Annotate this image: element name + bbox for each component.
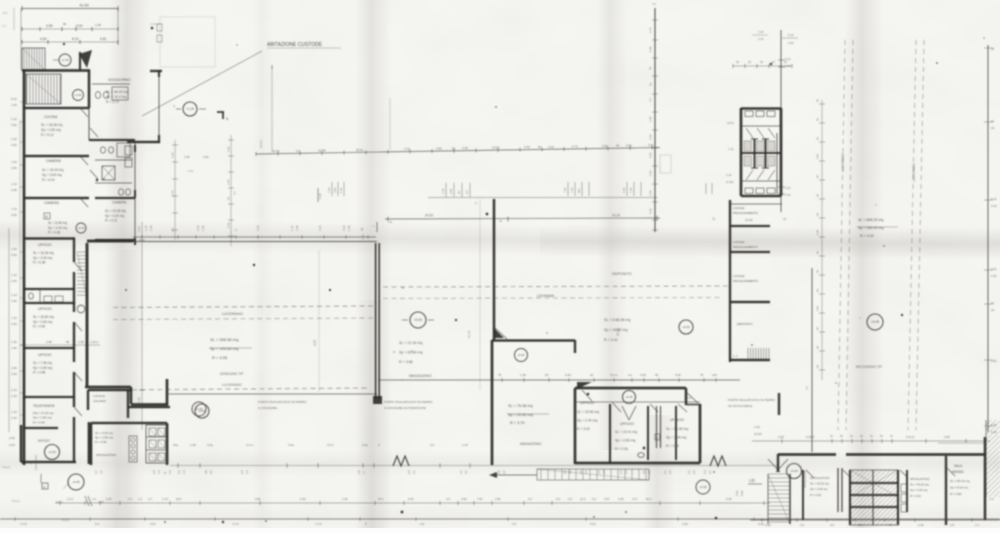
svg-text:4.0a: 4.0a (362, 443, 368, 447)
svg-text:SL = 12.34 mq: SL = 12.34 mq (399, 341, 422, 345)
svg-text:20.63: 20.63 (425, 214, 433, 218)
svg-text:3.60: 3.60 (333, 187, 337, 193)
svg-text:4.0: 4.0 (446, 497, 450, 501)
svg-text:4.0: 4.0 (296, 149, 301, 153)
svg-text:SPOGLIATOIO: SPOGLIATOIO (810, 476, 830, 480)
level circle +1.34 custode (183, 102, 197, 116)
svg-text:R = 4.22: R = 4.22 (105, 219, 117, 223)
svg-text:2.91.5: 2.91.5 (806, 435, 815, 439)
svg-text:9|: 9| (163, 472, 167, 474)
svg-text:4.75: 4.75 (404, 147, 410, 151)
door swings offices (74, 262, 82, 271)
svg-text:3.40: 3.40 (565, 373, 571, 377)
svg-text:1.50: 1.50 (11, 160, 17, 164)
svg-text:4.35: 4.35 (462, 146, 468, 150)
svg-text:2.1: 2.1 (708, 470, 712, 474)
tick cluster row y190 b (445, 183, 447, 197)
svg-text:4.8: 4.8 (497, 470, 501, 474)
svg-text:CAMERA: CAMERA (44, 201, 60, 205)
svg-text:+0.05: +0.05 (72, 480, 80, 484)
svg-text:1.20: 1.20 (327, 187, 331, 193)
room CAMERA 1 (24, 155, 89, 157)
shower box (102, 166, 115, 180)
svg-text:25 h: 25 h (378, 497, 384, 501)
svg-text:LOCALE: LOCALE (733, 240, 744, 244)
svg-text:2.4: 2.4 (177, 470, 181, 474)
stamp circle ricovero (867, 314, 883, 330)
svg-text:Sp = 63.60 mq: Sp = 63.60 mq (399, 351, 422, 355)
svg-text:7.30: 7.30 (570, 187, 574, 193)
entrance arrow (79, 50, 92, 68)
svg-text:2.10: 2.10 (11, 293, 17, 297)
svg-text:1.1a: 1.1a (728, 147, 734, 151)
svg-text:A CHIUSURE AUTOMATICHE: A CHIUSURE AUTOMATICHE (384, 406, 426, 410)
window zigzag left (393, 456, 409, 466)
svg-text:4.97: 4.97 (137, 226, 141, 232)
svg-text:4.50: 4.50 (11, 372, 17, 376)
svg-text:2.4: 2.4 (692, 470, 696, 474)
svg-text:2.4: 2.4 (703, 470, 707, 474)
dimension line 41.50 top (22, 8, 118, 10)
svg-text:14.63: 14.63 (259, 140, 263, 148)
svg-text:5.00: 5.00 (991, 274, 997, 278)
svg-text:1.50: 1.50 (649, 116, 653, 122)
level circle hall (195, 404, 209, 418)
svg-text:3.4: 3.4 (407, 470, 411, 474)
svg-text:1.00: 1.00 (149, 225, 153, 231)
svg-text:1.6: 1.6 (92, 497, 96, 501)
svg-text:2.40: 2.40 (785, 193, 791, 197)
svg-text:R = 5.13: R = 5.13 (41, 133, 54, 137)
svg-text:AD AVVOLGIBILE: AD AVVOLGIBILE (728, 404, 752, 408)
svg-text:Sp = 3.40 mq: Sp = 3.40 mq (33, 256, 52, 260)
svg-text:1.80: 1.80 (11, 346, 17, 350)
svg-text:1.60: 1.60 (46, 340, 52, 344)
office dim row (378, 379, 740, 381)
svg-text:4.40: 4.40 (524, 145, 530, 149)
vertical dim string x142 (141, 222, 143, 430)
svg-text:B: B (656, 436, 658, 440)
svg-text:Sp = 3.60 mq: Sp = 3.60 mq (33, 366, 52, 370)
svg-text:4.60: 4.60 (203, 155, 209, 159)
svg-text:4.10: 4.10 (256, 225, 260, 231)
corridor circle small (77, 305, 85, 313)
svg-text:1.4: 1.4 (245, 470, 249, 474)
svg-text:R = 3.68: R = 3.68 (399, 360, 413, 364)
svg-text:5.0: 5.0 (95, 522, 100, 526)
svg-text:2.60: 2.60 (11, 188, 17, 192)
room bottom left (24, 427, 58, 429)
svg-text:2.4: 2.4 (668, 470, 672, 474)
level circle +0.60 (76, 223, 86, 233)
svg-text:RICOVERO TP: RICOVERO TP (856, 365, 883, 369)
svg-text:SL = 4.20 mq: SL = 4.20 mq (95, 431, 113, 435)
svg-text:5.2.5: 5.2.5 (62, 518, 69, 522)
svg-text:2x0.9: 2x0.9 (727, 121, 734, 125)
svg-text:R = 2.60: R = 2.60 (810, 493, 821, 497)
svg-text:+0.00: +0.00 (682, 325, 690, 329)
svg-text:CUCINA: CUCINA (44, 115, 58, 119)
svg-text:+0.00: +0.00 (414, 318, 422, 322)
svg-text:CALDAIA: CALDAIA (93, 399, 106, 403)
bath fixtures top (95, 92, 100, 99)
svg-text:LUCERNAIO: LUCERNAIO (222, 312, 243, 316)
tick cluster row y190 c (567, 182, 569, 196)
svg-text:2.8: 2.8 (950, 523, 954, 527)
svg-text:4.5x: 4.5x (648, 143, 654, 147)
svg-text:40: 40 (457, 191, 461, 194)
mensa east partition (945, 456, 947, 525)
svg-text:RIPOST.: RIPOST. (38, 439, 51, 443)
wall nub right entrance (778, 393, 780, 415)
svg-text:45: 45 (66, 340, 70, 344)
mensa door swings left (776, 459, 788, 472)
svg-text:25: 25 (499, 219, 502, 223)
locker strip (129, 436, 137, 462)
svg-text:1.10: 1.10 (11, 182, 17, 186)
long vertical wall x655 (654, 8, 656, 232)
svg-text:2.60: 2.60 (778, 435, 784, 439)
bottom base line (0, 518, 1000, 520)
svg-text:2.1: 2.1 (412, 470, 416, 474)
svg-text:2.55: 2.55 (184, 155, 190, 159)
svg-text:4.50: 4.50 (11, 253, 17, 257)
svg-text:R = 4.04: R = 4.04 (42, 178, 55, 182)
svg-text:4.5: 4.5 (568, 497, 572, 501)
wc room (24, 288, 75, 290)
svg-text:6.00: 6.00 (408, 497, 414, 501)
svg-text:5.00: 5.00 (735, 490, 739, 496)
svg-text:4.50: 4.50 (626, 144, 632, 148)
svg-text:Sp = 2.80 mq: Sp = 2.80 mq (615, 439, 635, 443)
caldaia room walls (87, 390, 89, 410)
svg-text:SL = 18.36 mq: SL = 18.36 mq (33, 251, 54, 255)
svg-text:2.60: 2.60 (816, 305, 820, 311)
svg-text:UFFICIO: UFFICIO (38, 307, 52, 311)
svg-text:e: e (44, 485, 46, 489)
svg-text:2.60: 2.60 (989, 497, 995, 501)
svg-text:13.88: 13.88 (318, 149, 326, 153)
office column right wall (73, 238, 75, 262)
level circle deposito (679, 320, 693, 334)
paper specks (96, 179, 99, 182)
svg-text:TELEFONISTA: TELEFONISTA (33, 404, 55, 408)
svg-text:PORTA TAGLIAFUOCO IN FERRO: PORTA TAGLIAFUOCO IN FERRO (258, 400, 307, 404)
svg-text:2.9: 2.9 (800, 523, 804, 527)
svg-text:4.50: 4.50 (602, 144, 608, 148)
svg-text:2.2: 2.2 (94, 470, 98, 474)
svg-text:2A: 2A (991, 308, 995, 312)
right east wall (987, 45, 989, 432)
corridor stair hatch (77, 251, 87, 253)
apartment outer wall left (23, 70, 26, 238)
svg-text:1.50: 1.50 (342, 497, 348, 501)
wc stall fixtures (744, 141, 752, 151)
soggiorno room wall (88, 70, 91, 108)
svg-text:+0.00: +0.00 (517, 353, 525, 357)
svg-text:2.2: 2.2 (459, 470, 463, 474)
svg-text:4.89: 4.89 (495, 497, 501, 501)
svg-text:90: 90 (538, 145, 542, 149)
svg-text:SL = 75.38 mq: SL = 75.38 mq (508, 404, 533, 408)
svg-text:Sp = 3.40 mq: Sp = 3.40 mq (48, 226, 67, 230)
bottom long line y465 (170, 465, 778, 467)
svg-text:R = 4.80: R = 4.80 (950, 492, 962, 496)
svg-text:SL = 14.41 mq: SL = 14.41 mq (615, 430, 637, 434)
svg-text:2.60: 2.60 (11, 279, 17, 283)
svg-text:4.05: 4.05 (765, 523, 771, 527)
svg-text:Sp = 8.10 mq: Sp = 8.10 mq (950, 485, 968, 489)
svg-text:+1.34: +1.34 (61, 58, 69, 62)
svg-text:1.50: 1.50 (11, 247, 17, 251)
svg-text:12.5: 12.5 (580, 497, 586, 501)
svg-text:25: 25 (545, 373, 549, 377)
svg-text:6.00: 6.00 (300, 497, 306, 501)
services west wall (729, 200, 731, 362)
svg-text:UFFICIO: UFFICIO (38, 243, 52, 247)
svg-text:1.10: 1.10 (144, 225, 148, 231)
svg-text:40.5x: 40.5x (356, 148, 364, 152)
svg-text:SL = 45.20 mq: SL = 45.20 mq (910, 483, 929, 487)
svg-text:6.0: 6.0 (528, 497, 532, 501)
svg-text:SALA: SALA (954, 464, 963, 468)
svg-text:+0.05: +0.05 (195, 407, 203, 411)
svg-text:2.40: 2.40 (816, 229, 820, 235)
svg-text:PORTA TAGLIAFUOCO IN FERRO: PORTA TAGLIAFUOCO IN FERRO (384, 400, 433, 404)
svg-text:1.60: 1.60 (106, 497, 112, 501)
svg-text:2.4: 2.4 (584, 470, 588, 474)
svg-text:18.5: 18.5 (176, 497, 182, 501)
svg-text:7.2.5: 7.2.5 (232, 522, 239, 526)
svg-text:4.50: 4.50 (11, 123, 17, 127)
svg-text:Dim = 8.20 mq: Dim = 8.20 mq (33, 411, 53, 415)
svg-text:1.30: 1.30 (11, 340, 17, 344)
office west wall (574, 388, 577, 464)
svg-text:1.0: 1.0 (2, 24, 6, 28)
room CAMERA 3 (95, 197, 135, 199)
svg-text:SL = 268.56 mq.: SL = 268.56 mq. (210, 337, 239, 342)
svg-text:2.9 L5: 2.9 L5 (906, 435, 915, 439)
leader line to custode label (142, 51, 262, 116)
svg-text:Sp = 3.60 mq: Sp = 3.60 mq (42, 173, 62, 177)
svg-text:SL = 36.00 mq: SL = 36.00 mq (106, 90, 128, 94)
svg-text:4.50: 4.50 (461, 497, 467, 501)
svg-text:1.1b: 1.1b (290, 225, 294, 231)
hall bottom-left corner walls (85, 386, 131, 389)
svg-text:6.00: 6.00 (726, 497, 732, 501)
svg-text:1.20: 1.20 (11, 394, 17, 398)
svg-text:75: 75 (700, 373, 704, 377)
svg-text:40a: 40a (173, 443, 178, 447)
svg-text:MAGAZZINO: MAGAZZINO (520, 442, 542, 446)
svg-text:SL = 16.43 mq: SL = 16.43 mq (42, 168, 64, 172)
svg-text:0.5: 0.5 (556, 497, 560, 501)
svg-text:4.97: 4.97 (313, 340, 317, 346)
bath fixtures middle (101, 147, 106, 153)
svg-text:Sp = 2.40 mq: Sp = 2.40 mq (810, 487, 828, 491)
svg-text:4.50: 4.50 (11, 322, 17, 326)
svg-text:Fognat.: Fognat. (2, 465, 11, 469)
svg-text:2.60: 2.60 (991, 267, 997, 271)
svg-text:3.95: 3.95 (46, 24, 53, 28)
hall top wall (87, 240, 133, 243)
svg-text:RISCALDAMENTO: RISCALDAMENTO (733, 245, 759, 249)
svg-text:1.4.2: 1.4.2 (67, 497, 74, 501)
svg-text:2.60: 2.60 (991, 359, 997, 363)
svg-text:4.40: 4.40 (188, 169, 194, 173)
skylight dashed pair A (838, 40, 845, 430)
hall bottom boundary line (168, 393, 377, 395)
svg-text:SL = 15.36 mq: SL = 15.36 mq (666, 427, 688, 431)
window zigzag right (710, 456, 726, 466)
svg-text:SL = 8.88.48 mq: SL = 8.88.48 mq (604, 318, 630, 322)
svg-text:R = 4.26: R = 4.26 (666, 444, 679, 448)
svg-text:8.10: 8.10 (72, 37, 79, 41)
svg-text:1.3: 1.3 (975, 523, 979, 527)
svg-text:25: 25 (783, 217, 787, 221)
dimension row 2 (22, 28, 118, 30)
svg-text:1.10: 1.10 (11, 410, 17, 414)
svg-text:4.10: 4.10 (649, 208, 653, 214)
office lintel line (575, 401, 700, 403)
svg-text:3.0: 3.0 (830, 523, 834, 527)
hall faint vertical (318, 250, 320, 392)
svg-text:Portico: Portico (12, 499, 21, 503)
svg-text:2.60: 2.60 (918, 523, 924, 527)
svg-text:1.20: 1.20 (462, 443, 468, 447)
svg-text:LOCALE: LOCALE (733, 206, 744, 210)
svg-text:RISCALDAMENTO: RISCALDAMENTO (733, 211, 759, 215)
svg-text:1.20: 1.20 (726, 173, 732, 177)
page edge line (8, 228, 10, 432)
tick cross 6.90 (317, 188, 319, 202)
svg-text:R = 4.98: R = 4.98 (33, 371, 45, 375)
svg-text:7.5: 7.5 (888, 523, 892, 527)
svg-text:1.10 m: 1.10 m (90, 340, 99, 344)
mensa top wall (778, 453, 836, 456)
svg-text:+0.60: +0.60 (78, 226, 85, 230)
svg-text:4.50: 4.50 (11, 299, 17, 303)
svg-text:1.4: 1.4 (157, 470, 161, 474)
svg-text:Sp = 15.2 mq.: Sp = 15.2 mq. (106, 95, 127, 99)
svg-text:14.52: 14.52 (492, 146, 500, 150)
svg-text:3.0 m: 3.0 m (610, 373, 618, 377)
svg-text:1.4.6: 1.4.6 (162, 497, 169, 501)
svg-text:45: 45 (655, 373, 659, 377)
svg-text:1.40: 1.40 (629, 187, 633, 193)
svg-text:25: 25 (389, 220, 392, 224)
door swings mensa (806, 470, 814, 478)
svg-text:4.50: 4.50 (11, 143, 17, 147)
svg-text:R = 3.55: R = 3.55 (212, 355, 228, 360)
fire door swing (494, 327, 507, 339)
svg-text:1.6: 1.6 (99, 470, 103, 474)
boxed e mark (42, 483, 48, 489)
svg-text:4.40: 4.40 (227, 146, 231, 152)
svg-text:2A: 2A (991, 47, 995, 51)
room CUCINA (24, 107, 89, 109)
svg-text:7.81: 7.81 (477, 497, 483, 501)
spogliatoio room 2 (906, 470, 908, 512)
svg-text:4.8: 4.8 (204, 470, 208, 474)
svg-text:MAGAZZINO: MAGAZZINO (409, 374, 432, 378)
svg-text:4.05: 4.05 (758, 522, 764, 526)
internal staircase (26, 74, 28, 104)
level circle +1.34 left (59, 54, 71, 66)
svg-text:4.5: 4.5 (512, 522, 517, 526)
svg-text:SL = 8.96 mq: SL = 8.96 mq (48, 221, 67, 225)
long dim line y218 (385, 218, 660, 219)
svg-text:4.52: 4.52 (682, 522, 688, 526)
right building west wall lower (811, 268, 813, 452)
office bottom wall (575, 462, 700, 465)
svg-text:3.60: 3.60 (449, 188, 453, 194)
level circle magazzino south (515, 349, 528, 362)
svg-text:2.5: 2.5 (858, 523, 862, 527)
svg-text:1.6: 1.6 (138, 497, 142, 501)
stamp circle ripost (45, 445, 60, 460)
locker rects right (901, 484, 907, 492)
svg-text:R = 4.50: R = 4.50 (33, 420, 45, 424)
svg-text:3.2: 3.2 (464, 470, 468, 474)
svg-text:4.30: 4.30 (622, 187, 626, 193)
dim row 1.30 (20, 344, 100, 346)
svg-text:4.50: 4.50 (11, 213, 17, 217)
magazzino west wall (493, 199, 496, 340)
svg-text:1.10: 1.10 (11, 273, 17, 277)
svg-text:4.10: 4.10 (342, 225, 346, 231)
svg-text:2.60: 2.60 (788, 41, 794, 45)
skylight dashed pair B (908, 40, 916, 430)
svg-text:mx: mx (628, 373, 632, 377)
svg-text:12.00: 12.00 (745, 218, 753, 222)
svg-text:R = 3.41: R = 3.41 (604, 338, 618, 342)
wall under soggiorno (89, 139, 135, 141)
vertical dim string x231 (230, 135, 232, 246)
svg-text:3.6.2: 3.6.2 (56, 500, 63, 504)
svg-text:LOCALE: LOCALE (93, 394, 105, 398)
svg-text:Sp = 330.40 mq: Sp = 330.40 mq (858, 226, 883, 230)
svg-text:4.10: 4.10 (318, 225, 322, 231)
deposito dashed lower (383, 298, 720, 299)
svg-text:75: 75 (649, 66, 653, 70)
small recess rect (660, 155, 671, 173)
svg-text:2.2: 2.2 (687, 470, 691, 474)
svg-text:4.30: 4.30 (11, 366, 17, 370)
svg-text:+0.05: +0.05 (871, 320, 879, 324)
svg-text:50: 50 (63, 22, 67, 26)
svg-text:+0.05: +0.05 (48, 450, 56, 454)
vertical dim string x822 (821, 100, 823, 380)
svg-text:LUCERNAIO: LUCERNAIO (841, 153, 845, 172)
svg-text:4.8: 4.8 (420, 522, 425, 526)
svg-text:4.57: 4.57 (150, 522, 156, 526)
svg-text:8.0: 8.0 (3, 11, 7, 15)
svg-text:2.40: 2.40 (758, 37, 764, 41)
toilet pair right (125, 146, 132, 155)
bottom right dim row (752, 440, 990, 442)
skylight dashed line upper (113, 306, 374, 308)
svg-text:UFFICIO: UFFICIO (670, 418, 684, 422)
office door swings (582, 390, 592, 401)
left outer wall lower (23, 238, 26, 465)
svg-text:R = 5.38: R = 5.38 (33, 261, 45, 265)
svg-text:4.20: 4.20 (785, 186, 791, 190)
svg-text:4.35: 4.35 (618, 497, 624, 501)
svg-text:2.4: 2.4 (619, 470, 623, 474)
svg-text:4.0a: 4.0a (207, 443, 213, 447)
svg-text:SL = 15.36 mq: SL = 15.36 mq (105, 209, 126, 213)
